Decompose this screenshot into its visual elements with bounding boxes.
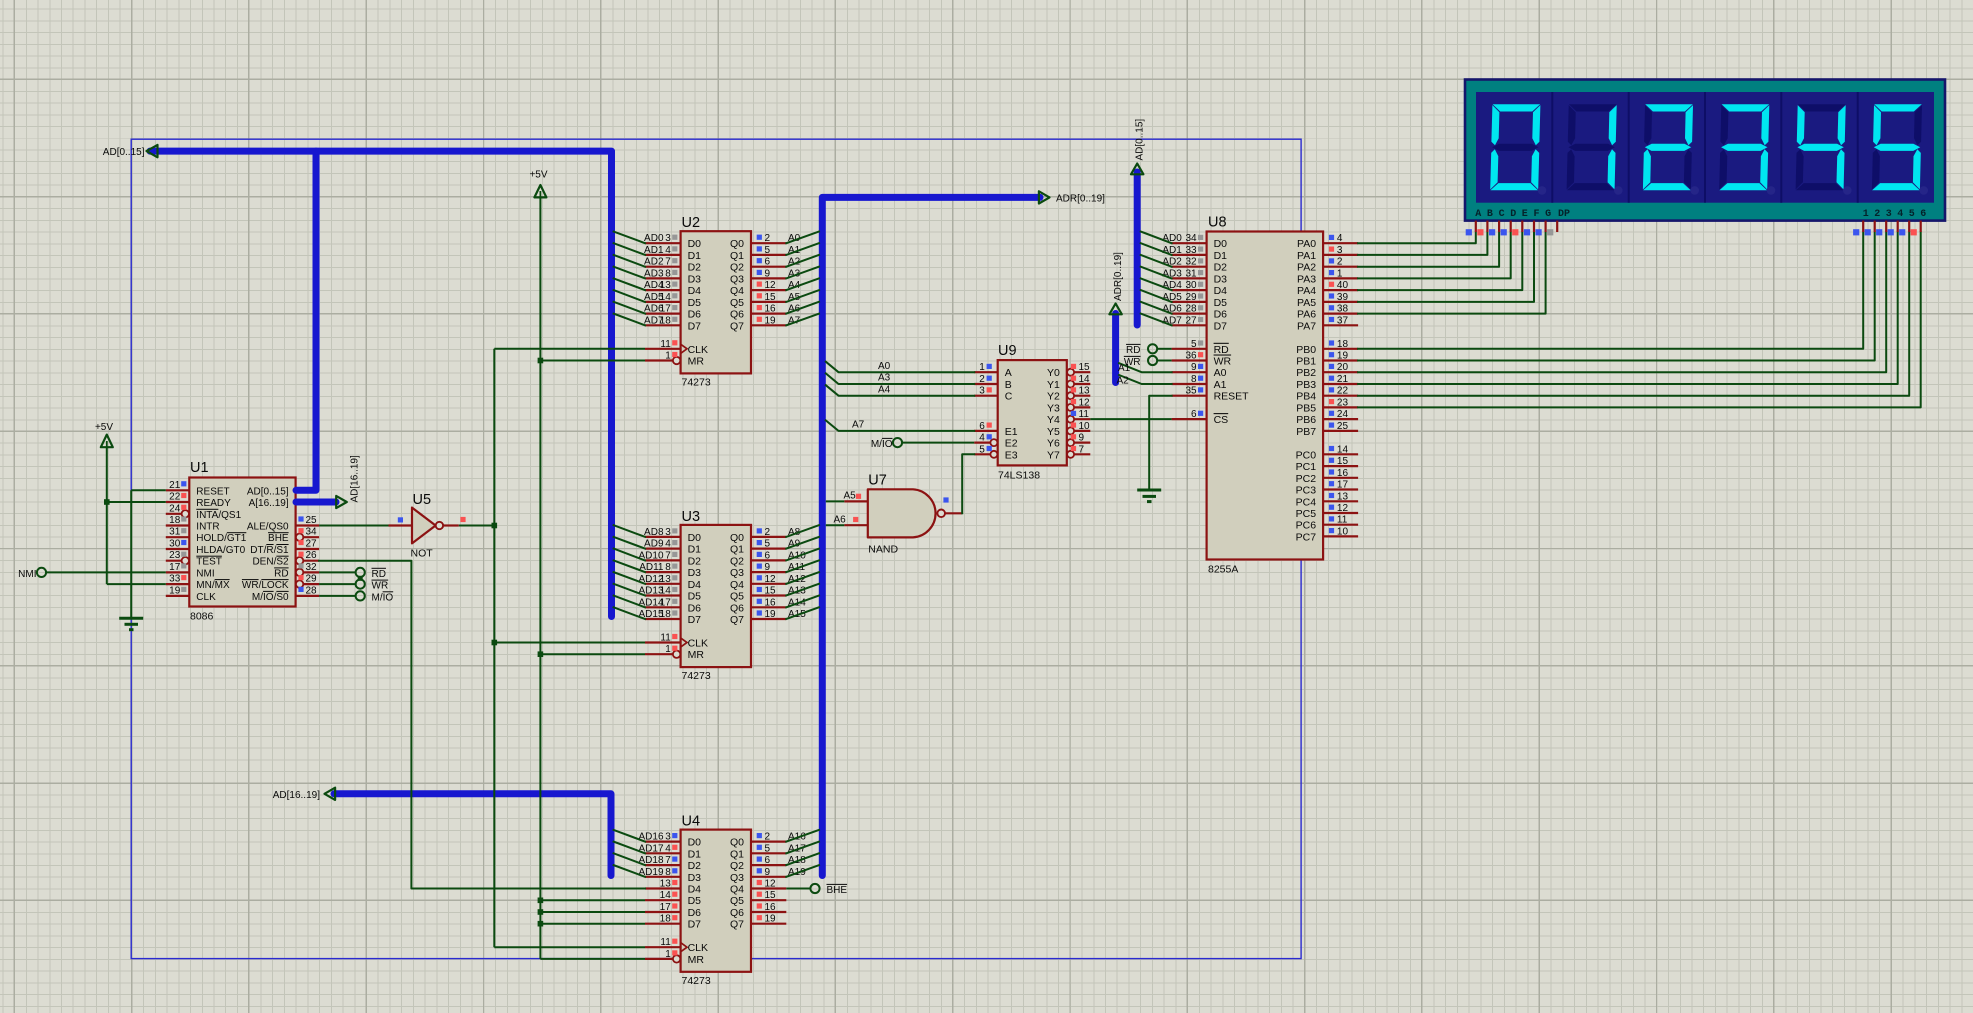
svg-text:D7: D7: [1214, 320, 1228, 332]
IC U4 74273 latch: [638, 814, 806, 987]
IC U9 74LS138 decoder: [974, 343, 1090, 481]
svg-text:A2: A2: [1117, 375, 1130, 386]
svg-text:AD[0..15]: AD[0..15]: [247, 486, 289, 497]
svg-text:Y3: Y3: [1047, 402, 1060, 414]
svg-text:6: 6: [1191, 409, 1197, 420]
svg-text:PC7: PC7: [1296, 531, 1317, 543]
bus arrow AD[0..15] up: [1131, 164, 1143, 175]
terminal M/IO at U9 E2: [871, 438, 902, 450]
svg-text:Q4: Q4: [730, 884, 744, 896]
bus entries AD0-AD7 to U2 D0-D7: [614, 232, 645, 326]
svg-text:MR: MR: [688, 356, 705, 368]
svg-text:7: 7: [665, 855, 671, 866]
svg-text:5: 5: [765, 539, 771, 550]
svg-text:A0: A0: [1214, 367, 1227, 379]
NOT gate U5: [389, 492, 466, 560]
svg-text:E3: E3: [1005, 449, 1018, 461]
svg-text:13: 13: [1079, 386, 1091, 397]
wire ADR bus to U9 A (net A0): [826, 361, 974, 372]
svg-text:35: 35: [1185, 386, 1197, 397]
svg-text:17: 17: [660, 304, 672, 315]
svg-text:PC3: PC3: [1296, 485, 1317, 497]
wire ADR short bus to U8 A1 (net A2): [1117, 375, 1172, 386]
wire CLK rail vertical: [493, 349, 495, 947]
svg-text:AD3: AD3: [644, 268, 664, 279]
svg-text:12: 12: [1337, 503, 1349, 514]
junction U5 output: [492, 523, 498, 529]
svg-text:12: 12: [765, 280, 777, 291]
svg-text:D2: D2: [688, 555, 702, 567]
svg-text:13: 13: [660, 879, 672, 890]
svg-text:10: 10: [1079, 421, 1091, 432]
svg-text:29: 29: [306, 574, 318, 585]
junction +5V rail U2 MR: [538, 358, 544, 364]
svg-text:PA5: PA5: [1297, 297, 1316, 309]
svg-text:WR/LOCK: WR/LOCK: [242, 580, 289, 591]
svg-text:U5: U5: [413, 492, 432, 508]
svg-text:Y7: Y7: [1047, 449, 1060, 461]
svg-text:U9: U9: [998, 343, 1017, 359]
svg-text:NOT: NOT: [411, 548, 434, 560]
svg-text:32: 32: [1185, 257, 1197, 268]
svg-text:D1: D1: [1214, 250, 1228, 262]
svg-text:CS: CS: [1214, 414, 1229, 426]
display digit 3 showing 2: [1643, 104, 1699, 194]
svg-text:17: 17: [660, 902, 672, 913]
junction +5V rail U4 D5: [538, 898, 544, 904]
svg-text:PC0: PC0: [1296, 449, 1317, 461]
svg-text:DT/R/S1: DT/R/S1: [250, 545, 289, 556]
svg-text:INTR: INTR: [196, 522, 219, 533]
svg-text:16: 16: [765, 902, 777, 913]
svg-text:HLDA/GT0: HLDA/GT0: [196, 545, 245, 556]
svg-text:15: 15: [1337, 456, 1349, 467]
svg-text:2: 2: [1874, 209, 1880, 220]
svg-text:D6: D6: [688, 309, 702, 321]
svg-text:22: 22: [169, 492, 181, 503]
svg-text:1: 1: [665, 351, 671, 362]
bus entries U3 Q0-Q7 to ADR bus (A8-A15): [786, 525, 819, 619]
svg-text:31: 31: [1185, 268, 1197, 279]
svg-text:2: 2: [979, 374, 985, 385]
svg-text:3: 3: [665, 527, 671, 538]
wire RD terminal at U8: [1126, 344, 1172, 356]
svg-text:PA1: PA1: [1297, 250, 1316, 262]
svg-text:5: 5: [979, 444, 985, 455]
svg-text:11: 11: [660, 633, 671, 644]
display digit pin stubs: [1853, 221, 1921, 236]
svg-text:D4: D4: [688, 579, 702, 591]
svg-text:4: 4: [1337, 233, 1343, 244]
svg-text:Q5: Q5: [730, 297, 744, 309]
terminal RD: [356, 568, 386, 580]
svg-text:NMI: NMI: [18, 569, 36, 580]
NAND gate U7: [834, 472, 963, 555]
wire +5V rail to U4 MR: [540, 958, 645, 960]
svg-text:MN/MX: MN/MX: [196, 580, 230, 591]
net label AD[0..15] rotated at U8: [1135, 119, 1146, 161]
bus AD[0..15] main (U1 to U2/U3): [150, 151, 612, 616]
junction +5V rail U3 MR: [538, 651, 544, 657]
svg-text:CLK: CLK: [688, 638, 708, 650]
svg-text:D5: D5: [1214, 297, 1228, 309]
wire ADR bus to U9 E1 (net A7): [826, 420, 974, 431]
svg-text:18: 18: [660, 315, 672, 326]
svg-text:D0: D0: [688, 837, 702, 849]
svg-text:PB6: PB6: [1296, 414, 1316, 426]
wire ADR bus to U7 input A5: [826, 500, 845, 502]
svg-text:20: 20: [1337, 362, 1349, 373]
svg-text:12: 12: [765, 879, 777, 890]
wire WR to terminal: [319, 583, 356, 585]
bus AD[0..15] at U8: [1134, 172, 1141, 325]
wire ADR bus to U7 input A6: [826, 524, 845, 526]
svg-text:7: 7: [1079, 444, 1085, 455]
svg-text:D0: D0: [688, 532, 702, 544]
svg-text:16: 16: [765, 597, 777, 608]
svg-text:RESET: RESET: [1214, 391, 1250, 403]
wire U4 Q4 to BHE terminal: [786, 888, 810, 890]
bus ADR[0..19] main vertical: [822, 197, 1040, 875]
bus arrow AD[16..19] bottom: [325, 788, 336, 800]
svg-text:PA6: PA6: [1297, 309, 1316, 321]
bus arrow ADR[0..19] up: [1109, 304, 1121, 315]
svg-text:Q4: Q4: [730, 285, 744, 297]
svg-text:1: 1: [665, 949, 671, 960]
svg-text:Q7: Q7: [730, 614, 744, 626]
svg-text:PB7: PB7: [1296, 426, 1316, 438]
svg-text:PB2: PB2: [1296, 367, 1316, 379]
svg-text:B: B: [1005, 379, 1012, 391]
svg-text:4: 4: [665, 245, 671, 256]
svg-text:74273: 74273: [682, 975, 711, 987]
wire CLK rail to U2 CLK: [494, 348, 645, 350]
svg-text:AD9: AD9: [644, 539, 664, 550]
svg-text:ADR[0..19]: ADR[0..19]: [1113, 252, 1124, 301]
svg-text:3: 3: [665, 832, 671, 843]
svg-text:8: 8: [665, 268, 671, 279]
svg-text:A6: A6: [834, 514, 847, 525]
svg-text:1: 1: [979, 362, 985, 373]
wire WR terminal at U8: [1124, 356, 1172, 368]
svg-text:8: 8: [665, 562, 671, 573]
bus entries AD8-AD15 to U3 D0-D7: [614, 525, 645, 619]
svg-text:AD[16..19]: AD[16..19]: [273, 790, 320, 801]
junction CLK rail U3: [492, 640, 498, 646]
svg-text:2: 2: [765, 832, 771, 843]
svg-text:U8: U8: [1208, 215, 1227, 231]
wire M/IO terminal to U9 E2: [902, 442, 974, 444]
svg-text:39: 39: [1337, 292, 1349, 303]
svg-text:13: 13: [660, 574, 672, 585]
wire ADR bus to U9 B (net A3): [826, 373, 974, 384]
wire U5 output to CLK rail: [459, 525, 495, 527]
svg-text:PC4: PC4: [1296, 496, 1317, 508]
wire NMI to U1: [46, 571, 166, 573]
svg-text:40: 40: [1337, 280, 1349, 291]
wire CLK rail to U4 CLK: [494, 946, 645, 948]
svg-text:PA2: PA2: [1297, 262, 1316, 274]
svg-text:TEST: TEST: [196, 557, 222, 568]
svg-text:A0: A0: [878, 361, 891, 372]
wire +5V rail to U4 D6: [540, 911, 645, 913]
wire +5V rail to U2 MR: [540, 360, 645, 362]
svg-text:12: 12: [765, 574, 777, 585]
svg-text:+5V: +5V: [529, 170, 547, 181]
svg-text:ALE/QS0: ALE/QS0: [247, 522, 289, 533]
svg-text:22: 22: [1337, 386, 1349, 397]
svg-text:9: 9: [1191, 362, 1197, 373]
svg-text:27: 27: [306, 539, 318, 550]
svg-text:Q6: Q6: [730, 907, 744, 919]
svg-text:10: 10: [1337, 526, 1349, 537]
svg-text:3: 3: [979, 386, 985, 397]
bus entries AD0-AD7 to U8 D0-D7: [1141, 232, 1172, 326]
svg-text:AD8: AD8: [644, 527, 664, 538]
svg-text:HOLD/GT1: HOLD/GT1: [196, 533, 246, 544]
bus arrow AD[0..15] left: [147, 145, 158, 157]
svg-text:D6: D6: [1214, 309, 1228, 321]
svg-text:Q1: Q1: [730, 250, 744, 262]
svg-text:Q0: Q0: [730, 238, 744, 250]
svg-text:18: 18: [660, 914, 672, 925]
svg-text:1: 1: [1337, 268, 1343, 279]
svg-text:17: 17: [169, 562, 181, 573]
svg-text:D1: D1: [688, 250, 702, 262]
wire ADR bus to U9 C (net A4): [826, 384, 974, 395]
svg-text:Q1: Q1: [730, 544, 744, 556]
svg-text:6: 6: [765, 257, 771, 268]
svg-text:D2: D2: [688, 262, 702, 274]
svg-text:D1: D1: [688, 544, 702, 556]
svg-text:Q3: Q3: [730, 273, 744, 285]
IC U3 74273 latch: [638, 509, 806, 682]
svg-text:9: 9: [765, 268, 771, 279]
svg-text:PC2: PC2: [1296, 473, 1317, 485]
7-segment display body: [1465, 80, 1945, 221]
svg-text:INTA/QS1: INTA/QS1: [196, 510, 241, 521]
wire U8 RESET to ground: [1149, 396, 1171, 490]
svg-text:U2: U2: [682, 215, 701, 231]
bus ADR[0..19] short at U8: [1112, 314, 1119, 383]
svg-text:11: 11: [660, 339, 671, 350]
svg-text:15: 15: [1079, 362, 1091, 373]
net label ADR[0..19] rotated at U8: [1113, 252, 1124, 301]
svg-text:25: 25: [1337, 421, 1349, 432]
svg-text:24: 24: [1337, 409, 1349, 420]
svg-text:5: 5: [1909, 209, 1915, 220]
svg-text:9: 9: [765, 562, 771, 573]
svg-text:D5: D5: [688, 895, 702, 907]
svg-text:19: 19: [1337, 351, 1349, 362]
svg-text:24: 24: [169, 503, 181, 514]
svg-text:RD: RD: [1214, 344, 1230, 356]
display digit 4 showing 3: [1719, 104, 1775, 194]
svg-text:5: 5: [765, 843, 771, 854]
ground symbol near U1: [119, 618, 143, 629]
svg-text:M/IO/S0: M/IO/S0: [252, 592, 289, 603]
svg-text:3: 3: [1337, 245, 1343, 256]
svg-text:G: G: [1545, 209, 1551, 220]
svg-text:27: 27: [1185, 315, 1197, 326]
bus AD[16..19] bottom (to U4): [334, 794, 611, 876]
svg-text:RD: RD: [274, 568, 288, 579]
wire +5V rail to U4 D5: [540, 899, 645, 901]
svg-text:2: 2: [1337, 257, 1343, 268]
svg-text:A5: A5: [844, 490, 857, 501]
wire +5V rail to U4 D7: [540, 923, 645, 925]
svg-text:D3: D3: [1214, 273, 1228, 285]
svg-text:ADR[0..19]: ADR[0..19]: [1056, 194, 1105, 205]
svg-text:30: 30: [169, 539, 181, 550]
net label AD[0..15] top-left: [103, 147, 145, 158]
IC U2 74273 latch: [644, 215, 801, 388]
svg-text:PA0: PA0: [1297, 238, 1316, 250]
svg-text:D0: D0: [1214, 238, 1228, 250]
svg-text:Y4: Y4: [1047, 414, 1060, 426]
svg-text:PB0: PB0: [1296, 344, 1316, 356]
wire ADR short bus to U8 A0 (net A1): [1118, 363, 1172, 374]
svg-text:AD[0..15]: AD[0..15]: [103, 147, 145, 158]
svg-text:8255A: 8255A: [1208, 564, 1238, 576]
svg-text:AD[16..19]: AD[16..19]: [350, 455, 361, 502]
svg-text:74273: 74273: [682, 376, 711, 388]
svg-text:PB5: PB5: [1296, 402, 1316, 414]
svg-text:PB4: PB4: [1296, 391, 1316, 403]
svg-text:D3: D3: [688, 567, 702, 579]
svg-text:RESET: RESET: [196, 486, 229, 497]
wire RD to terminal: [319, 571, 356, 573]
wire +5V to READY: [107, 447, 166, 584]
ground symbol near U8: [1137, 490, 1161, 502]
svg-text:16: 16: [765, 304, 777, 315]
svg-text:Q5: Q5: [730, 591, 744, 603]
svg-text:BHE: BHE: [827, 885, 848, 896]
svg-text:NMI: NMI: [196, 568, 214, 579]
svg-text:9: 9: [1079, 433, 1085, 444]
svg-text:Q1: Q1: [730, 848, 744, 860]
svg-text:Y6: Y6: [1047, 438, 1060, 450]
wires U8 PA0-PA6 to display segment pins: [1358, 233, 1546, 314]
svg-text:D2: D2: [1214, 262, 1228, 274]
wires U8 PB0-PB5 to display digit pins: [1358, 233, 1921, 408]
svg-text:RD: RD: [1126, 345, 1140, 356]
svg-text:Q5: Q5: [730, 895, 744, 907]
svg-text:1: 1: [1863, 209, 1869, 220]
svg-text:7: 7: [665, 257, 671, 268]
svg-text:4: 4: [665, 843, 671, 854]
svg-text:13: 13: [660, 280, 672, 291]
svg-text:AD1: AD1: [644, 245, 664, 256]
IC U8 8255A PPI: [1162, 215, 1358, 576]
svg-text:Q2: Q2: [730, 860, 744, 872]
svg-text:11: 11: [1337, 515, 1348, 526]
svg-text:A7: A7: [852, 420, 865, 431]
svg-text:U1: U1: [190, 460, 209, 476]
svg-text:D6: D6: [688, 602, 702, 614]
svg-text:Y1: Y1: [1047, 379, 1060, 391]
svg-text:28: 28: [306, 585, 318, 596]
svg-text:14: 14: [660, 292, 672, 303]
bus arrow A[16..19]: [336, 496, 347, 508]
svg-text:Q6: Q6: [730, 602, 744, 614]
svg-text:D7: D7: [688, 320, 702, 332]
svg-text:D0: D0: [688, 238, 702, 250]
svg-text:Y5: Y5: [1047, 426, 1060, 438]
bus entries U2 Q0-Q7 to ADR bus (A0-A7): [786, 232, 819, 326]
svg-text:23: 23: [1337, 397, 1349, 408]
svg-text:A[16..19]: A[16..19]: [249, 498, 289, 509]
bus entries AD16-AD19 to U4 D0-D3: [614, 830, 645, 877]
svg-text:8: 8: [1191, 374, 1197, 385]
wire U9 Y4 to U8 CS: [1090, 418, 1171, 420]
svg-text:PB1: PB1: [1296, 356, 1316, 368]
svg-text:Q7: Q7: [730, 919, 744, 931]
bus A[16..19] from U1: [296, 499, 336, 506]
svg-text:Q0: Q0: [730, 532, 744, 544]
svg-text:Q0: Q0: [730, 837, 744, 849]
svg-text:Q6: Q6: [730, 309, 744, 321]
bus entries U4 Q0-Q3 to ADR bus (A16-A19): [786, 830, 819, 877]
svg-text:1: 1: [665, 644, 671, 655]
svg-text:33: 33: [169, 574, 181, 585]
wire RESET to ground rail: [131, 490, 166, 618]
IC U1 8086 CPU: [166, 460, 319, 623]
svg-text:29: 29: [1185, 292, 1197, 303]
terminal NMI: [18, 568, 46, 580]
svg-text:U7: U7: [868, 472, 887, 488]
svg-text:38: 38: [1337, 304, 1349, 315]
display pin name letters ABCDEFG DP: [1475, 209, 1570, 220]
svg-text:36: 36: [1185, 351, 1197, 362]
svg-text:34: 34: [1185, 233, 1197, 244]
svg-text:23: 23: [169, 550, 181, 561]
svg-text:17: 17: [1337, 480, 1349, 491]
terminal BHE at U4: [810, 884, 847, 896]
svg-text:M/IO: M/IO: [871, 439, 893, 450]
svg-text:C: C: [1499, 209, 1505, 220]
svg-text:RD: RD: [372, 569, 386, 580]
svg-text:34: 34: [306, 527, 318, 538]
svg-text:PA7: PA7: [1297, 320, 1316, 332]
svg-text:5: 5: [765, 245, 771, 256]
svg-text:U4: U4: [682, 814, 701, 830]
svg-text:PC5: PC5: [1296, 508, 1317, 520]
svg-text:3: 3: [665, 233, 671, 244]
terminal WR: [356, 580, 389, 592]
svg-text:D7: D7: [688, 919, 702, 931]
svg-text:6: 6: [1920, 209, 1926, 220]
display digit 1 showing 0: [1490, 104, 1546, 194]
svg-text:BHE: BHE: [268, 533, 289, 544]
svg-text:A: A: [1005, 367, 1012, 379]
svg-text:16: 16: [1337, 468, 1349, 479]
svg-text:74273: 74273: [682, 670, 711, 682]
svg-text:D3: D3: [688, 872, 702, 884]
svg-text:11: 11: [660, 937, 671, 948]
svg-text:28: 28: [1185, 304, 1197, 315]
svg-text:PB3: PB3: [1296, 379, 1316, 391]
svg-text:6: 6: [765, 855, 771, 866]
svg-text:U3: U3: [682, 509, 701, 525]
svg-text:B: B: [1487, 209, 1493, 220]
svg-text:31: 31: [169, 527, 181, 538]
svg-text:Q2: Q2: [730, 262, 744, 274]
wire DEN/S2 to U4 D4: [319, 561, 645, 889]
display segment pin stubs: [1466, 221, 1558, 236]
svg-text:4: 4: [665, 539, 671, 550]
svg-text:9: 9: [765, 867, 771, 878]
